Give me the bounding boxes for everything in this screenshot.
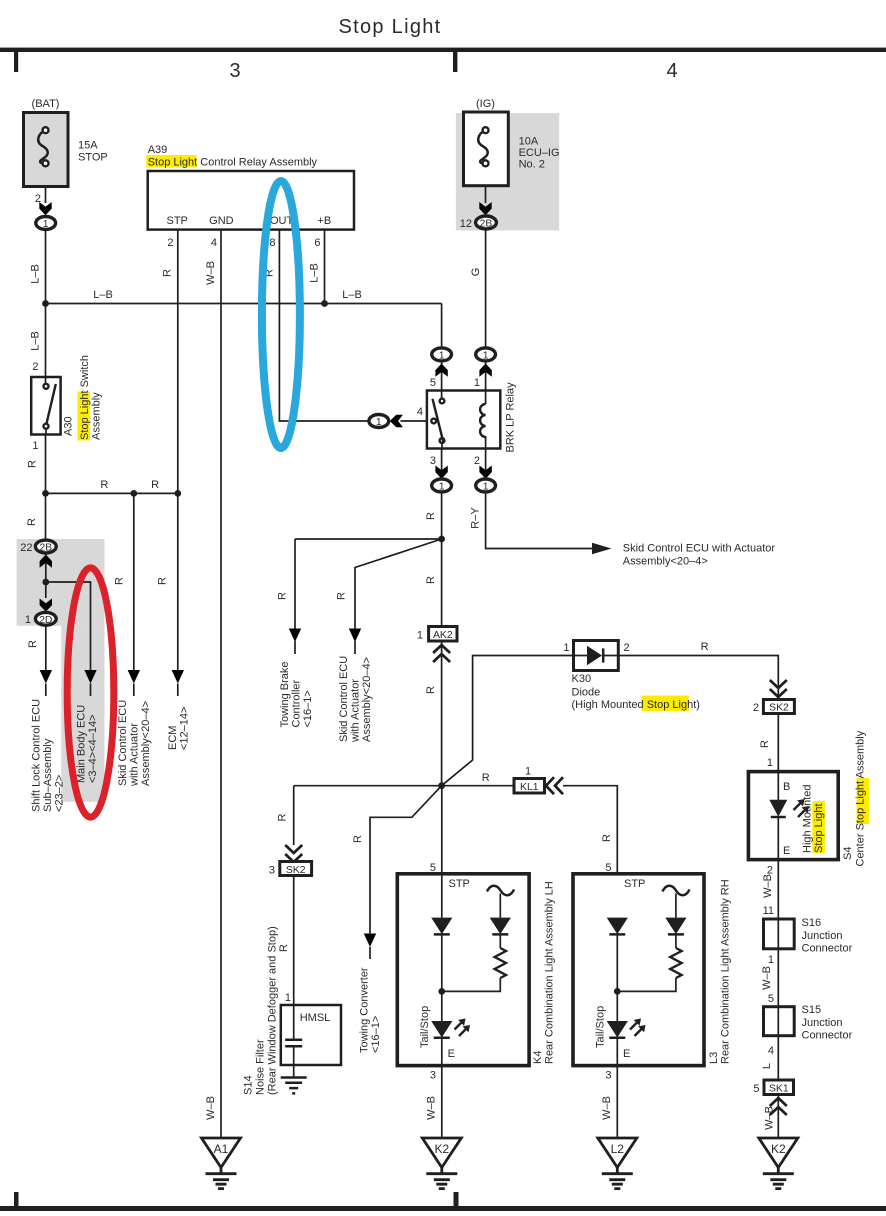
svg-text:K2: K2 <box>434 1142 449 1156</box>
svg-text:R: R <box>425 576 437 584</box>
svg-text:2: 2 <box>474 455 480 467</box>
svg-text:Stop Light: Stop Light <box>338 16 441 38</box>
svg-text:Skid Control ECU with Actuator: Skid Control ECU with Actuator <box>623 543 776 555</box>
svg-text:L–B: L–B <box>30 264 42 284</box>
svg-text:SK2: SK2 <box>769 703 789 714</box>
svg-text:(IG): (IG) <box>476 98 495 110</box>
svg-text:L2: L2 <box>611 1142 625 1156</box>
svg-text:HMSL: HMSL <box>300 1012 331 1024</box>
svg-text:W–B: W–B <box>764 1106 776 1130</box>
svg-text:Diode: Diode <box>572 687 601 699</box>
svg-text:R: R <box>26 518 38 526</box>
svg-text:3: 3 <box>605 1070 611 1082</box>
svg-text:1: 1 <box>43 219 49 230</box>
svg-text:5: 5 <box>753 1083 759 1095</box>
svg-text:22: 22 <box>20 542 32 554</box>
svg-text:R: R <box>27 640 39 648</box>
svg-text:(Rear Window Defogger and Stop: (Rear Window Defogger and Stop) <box>267 926 279 1095</box>
svg-text:AK2: AK2 <box>433 630 453 641</box>
svg-text:R: R <box>157 577 169 585</box>
svg-text:(High Mounted Stop Light): (High Mounted Stop Light) <box>572 699 700 711</box>
svg-text:Assembly<20–4>: Assembly<20–4> <box>623 556 708 568</box>
svg-text:W–B: W–B <box>205 1096 217 1120</box>
svg-text:R: R <box>27 460 39 468</box>
svg-text:R: R <box>277 592 289 600</box>
svg-text:R: R <box>352 835 364 843</box>
svg-text:with Actuator: with Actuator <box>129 723 141 787</box>
svg-text:A1: A1 <box>214 1142 229 1156</box>
svg-text:Junction: Junction <box>802 1017 843 1029</box>
svg-text:1: 1 <box>767 757 773 769</box>
svg-text:L–B: L–B <box>30 331 42 351</box>
svg-text:4: 4 <box>768 1045 774 1057</box>
svg-text:1: 1 <box>525 766 531 778</box>
svg-text:STP: STP <box>166 215 187 227</box>
svg-text:6: 6 <box>314 237 320 249</box>
svg-text:S15: S15 <box>802 1004 822 1016</box>
svg-text:Towing Converter: Towing Converter <box>359 967 371 1053</box>
svg-text:G: G <box>470 268 482 277</box>
svg-text:1: 1 <box>285 992 291 1004</box>
svg-text:K2: K2 <box>771 1142 786 1156</box>
svg-text:ECM: ECM <box>167 726 179 750</box>
svg-text:2B: 2B <box>39 543 52 554</box>
svg-text:High Mounted: High Mounted <box>802 785 814 854</box>
svg-text:W–B: W–B <box>762 874 774 898</box>
svg-text:Noise Filter: Noise Filter <box>255 1039 267 1095</box>
svg-text:W–B: W–B <box>601 1096 613 1120</box>
svg-text:2: 2 <box>753 702 759 714</box>
svg-text:1: 1 <box>376 417 382 428</box>
svg-text:R: R <box>113 577 125 585</box>
svg-text:S16: S16 <box>802 917 822 929</box>
svg-text:Towing Brake: Towing Brake <box>279 661 291 727</box>
svg-text:K30: K30 <box>572 673 592 685</box>
svg-text:SK1: SK1 <box>769 1084 789 1095</box>
svg-text:W–B: W–B <box>761 966 773 990</box>
svg-text:STP: STP <box>449 878 470 890</box>
svg-text:L: L <box>761 1063 773 1069</box>
svg-text:K4: K4 <box>532 1051 544 1064</box>
svg-text:R: R <box>100 479 108 491</box>
svg-text:Center Stop Light Assembly: Center Stop Light Assembly <box>855 730 867 866</box>
svg-text:1: 1 <box>439 482 445 493</box>
svg-text:E: E <box>783 845 790 857</box>
svg-text:R: R <box>701 641 709 653</box>
svg-text:Stop Light Control Relay Assem: Stop Light Control Relay Assembly <box>148 157 318 169</box>
svg-text:Stop Light Switch: Stop Light Switch <box>79 355 91 440</box>
svg-text:ECU–IG: ECU–IG <box>519 147 560 159</box>
svg-text:15A: 15A <box>78 140 98 152</box>
svg-text:Connector: Connector <box>802 943 853 955</box>
svg-text:BRK LP Relay: BRK LP Relay <box>505 382 517 453</box>
svg-text:R: R <box>277 813 289 821</box>
svg-text:5: 5 <box>768 993 774 1005</box>
svg-text:<16–1>: <16–1> <box>370 1016 382 1053</box>
svg-text:R: R <box>482 772 490 784</box>
svg-text:L3: L3 <box>708 1052 720 1064</box>
svg-text:2: 2 <box>167 237 173 249</box>
svg-text:12: 12 <box>460 218 472 230</box>
svg-text:Main Body ECU: Main Body ECU <box>76 705 88 783</box>
svg-text:Skid Control ECU: Skid Control ECU <box>117 700 129 786</box>
svg-text:1: 1 <box>483 350 489 361</box>
svg-text:Sub–Assembly: Sub–Assembly <box>42 738 54 812</box>
svg-text:B: B <box>783 781 790 793</box>
svg-text:GND: GND <box>209 215 234 227</box>
svg-text:10A: 10A <box>519 136 539 148</box>
svg-text:L–B: L–B <box>93 289 113 301</box>
svg-text:2D: 2D <box>39 615 52 626</box>
svg-text:Skid Control ECU: Skid Control ECU <box>338 656 350 742</box>
svg-text:Rear Combination Light Assembl: Rear Combination Light Assembly RH <box>720 879 732 1064</box>
svg-text:S4: S4 <box>842 847 854 860</box>
svg-text:1: 1 <box>417 630 423 642</box>
svg-text:Connector: Connector <box>802 1030 853 1042</box>
svg-text:11: 11 <box>763 905 774 917</box>
svg-text:Assembly<20–4>: Assembly<20–4> <box>140 701 152 786</box>
svg-text:2: 2 <box>32 361 38 373</box>
svg-text:STP: STP <box>624 878 645 890</box>
svg-text:S14: S14 <box>243 1075 255 1095</box>
svg-text:1: 1 <box>474 377 480 389</box>
svg-text:R: R <box>425 512 437 520</box>
svg-text:Shift Lock Control ECU: Shift Lock Control ECU <box>31 699 43 812</box>
svg-text:2: 2 <box>624 642 630 654</box>
svg-text:R: R <box>278 944 290 952</box>
svg-text:3: 3 <box>229 60 240 82</box>
svg-text:R–Y: R–Y <box>470 507 482 529</box>
svg-text:R: R <box>162 269 174 277</box>
svg-text:R: R <box>336 592 348 600</box>
svg-text:1: 1 <box>768 954 774 966</box>
svg-text:Assembly: Assembly <box>91 392 103 440</box>
svg-text:1: 1 <box>32 440 38 452</box>
svg-text:Controller: Controller <box>291 679 303 727</box>
svg-text:STOP: STOP <box>78 152 108 164</box>
svg-text:4: 4 <box>417 406 423 418</box>
svg-text:W–B: W–B <box>205 261 217 285</box>
svg-text:R: R <box>601 834 613 842</box>
svg-text:Tail/Stop: Tail/Stop <box>595 1006 607 1048</box>
svg-text:<23–2>: <23–2> <box>54 775 66 812</box>
svg-text:1: 1 <box>25 614 31 626</box>
svg-text:A39: A39 <box>148 144 168 156</box>
svg-text:4: 4 <box>666 60 677 82</box>
svg-text:KL1: KL1 <box>520 782 539 793</box>
svg-text:3: 3 <box>269 865 275 877</box>
svg-text:with Actuator: with Actuator <box>350 679 362 743</box>
svg-text:2B: 2B <box>480 219 493 230</box>
svg-text:4: 4 <box>211 237 217 249</box>
svg-text:8: 8 <box>269 237 275 249</box>
svg-text:L–B: L–B <box>309 263 321 283</box>
svg-text:Assembly<20–4>: Assembly<20–4> <box>361 657 373 742</box>
svg-text:Rear Combination Light Assembl: Rear Combination Light Assembly LH <box>544 881 556 1064</box>
svg-text:<12–14>: <12–14> <box>179 707 191 750</box>
svg-text:R: R <box>759 740 771 748</box>
svg-text:1: 1 <box>439 350 445 361</box>
svg-text:R: R <box>151 479 159 491</box>
svg-text:L–B: L–B <box>342 289 362 301</box>
svg-text:3: 3 <box>430 1070 436 1082</box>
svg-text:Junction: Junction <box>802 930 843 942</box>
svg-text:(BAT): (BAT) <box>32 98 60 110</box>
svg-text:W–B: W–B <box>426 1096 438 1120</box>
svg-text:+B: +B <box>317 215 331 227</box>
svg-text:<3–4><4–14>: <3–4><4–14> <box>87 714 99 783</box>
svg-text:E: E <box>448 1048 455 1060</box>
svg-text:R: R <box>425 686 437 694</box>
svg-text:No. 2: No. 2 <box>519 159 545 171</box>
svg-text:SK2: SK2 <box>286 865 306 876</box>
svg-text:A30: A30 <box>63 416 75 436</box>
svg-text:1: 1 <box>483 482 489 493</box>
svg-text:1: 1 <box>563 642 569 654</box>
svg-text:Stop Light: Stop Light <box>813 803 825 853</box>
svg-text:<16–1>: <16–1> <box>302 690 314 727</box>
svg-text:3: 3 <box>430 455 436 467</box>
svg-text:5: 5 <box>430 377 436 389</box>
svg-text:E: E <box>623 1048 630 1060</box>
svg-text:Tail/Stop: Tail/Stop <box>419 1006 431 1048</box>
